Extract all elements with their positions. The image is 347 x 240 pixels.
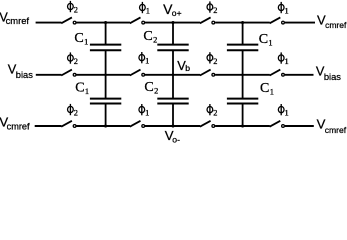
wire row A seg2 (76, 22, 130, 24)
junction node Vo+ (171, 21, 174, 24)
svg-text:cmref: cmref (325, 20, 347, 30)
wire row B seg4 (215, 74, 270, 76)
clock label phi2 (top sw1) (68, 1, 78, 15)
net label V_b (177, 58, 190, 73)
wire row A seg1 (36, 22, 62, 24)
junction node Vo- (171, 124, 174, 127)
svg-text:bias: bias (16, 70, 33, 80)
svg-text:o+: o+ (172, 8, 182, 18)
svg-text:2: 2 (74, 57, 78, 66)
svg-text:cmref: cmref (7, 121, 30, 131)
junction node top of C1 right (241, 21, 244, 24)
label C1 (top right cap) (259, 32, 273, 48)
clock label phi1 (top sw2) (140, 2, 150, 16)
switch phi1 S8 (mid row) (270, 70, 285, 77)
net label V_o- (165, 128, 180, 145)
svg-text:1: 1 (85, 87, 89, 96)
net label V_bias (right) (316, 63, 341, 81)
svg-text:bias: bias (324, 72, 341, 82)
junction mid row at right column (241, 74, 244, 77)
capacitor C1 bottom-right (227, 75, 258, 126)
label C1 (top left cap) (74, 31, 88, 47)
clock label phi1 (bot sw2) (139, 104, 149, 118)
svg-text:1: 1 (145, 109, 149, 118)
label C2 (top middle cap) (143, 29, 157, 45)
switch phi1 S10 (bottom row) (130, 121, 145, 128)
wire row A seg5 (285, 22, 315, 24)
svg-text:1: 1 (285, 7, 289, 16)
wire row B seg5 (285, 74, 314, 76)
svg-text:C: C (144, 80, 153, 95)
capacitor C2 top-middle (157, 23, 188, 75)
svg-text:C: C (74, 31, 83, 46)
label C1 (bottom left cap) (75, 81, 89, 97)
wire row C seg2 (76, 125, 130, 127)
clock label phi1 (mid sw2) (139, 52, 149, 66)
svg-text:1: 1 (285, 57, 289, 66)
clock label phi2 (bot sw3) (207, 104, 217, 118)
wire row C seg3 (145, 125, 200, 127)
svg-text:C: C (260, 81, 269, 96)
switch phi1 S6 (mid row) (130, 70, 145, 77)
clock label phi1 (mid sw4) (278, 52, 288, 66)
wire row C seg5 (285, 125, 314, 127)
wire row A seg3 (145, 22, 200, 24)
junction node bottom of C1 left (104, 124, 107, 127)
net label V_cmref (bottom left) (0, 114, 30, 131)
switch phi2 S3 (top row) (200, 17, 215, 24)
wire row C seg4 (215, 125, 270, 127)
switch phi1 S4 (top row) (270, 17, 285, 24)
svg-text:C: C (143, 29, 152, 44)
clock label phi2 (bot sw1) (68, 104, 78, 118)
svg-text:b: b (185, 63, 190, 73)
svg-text:2: 2 (74, 6, 78, 15)
switch phi2 S5 (mid row) (61, 70, 76, 77)
svg-text:1: 1 (268, 39, 272, 48)
clock label phi2 (mid sw1) (68, 52, 78, 66)
clock label phi1 (top sw4) (278, 2, 288, 16)
net label V_bias (left) (8, 62, 34, 80)
clock label phi1 (bot sw4) (278, 104, 288, 118)
clock label phi2 (mid sw3) (207, 52, 217, 66)
svg-text:2: 2 (213, 109, 217, 118)
switch phi2 S7 (mid row) (200, 70, 215, 77)
svg-text:1: 1 (270, 88, 274, 97)
svg-text:2: 2 (213, 57, 217, 66)
wire row B seg3 (145, 74, 200, 76)
wire row B seg2 (76, 74, 130, 76)
switch phi2 S1 (top row) (61, 17, 76, 24)
svg-text:C: C (259, 32, 268, 47)
svg-text:2: 2 (153, 35, 157, 44)
net label V_cmref (top left) (0, 10, 29, 25)
svg-text:1: 1 (146, 7, 150, 16)
switch phi1 S2 (top row) (130, 17, 145, 24)
svg-text:1: 1 (84, 38, 88, 47)
label C1 (bottom right cap) (260, 81, 274, 97)
svg-text:cmref: cmref (6, 15, 30, 26)
switch phi2 S9 (bottom row) (61, 121, 76, 128)
junction node Vb (172, 74, 175, 77)
svg-text:2: 2 (213, 6, 217, 15)
svg-text:1: 1 (285, 109, 289, 118)
svg-text:cmref: cmref (325, 125, 347, 135)
capacitor C2 bottom-middle (157, 75, 188, 126)
svg-text:C: C (75, 81, 84, 96)
wire row B seg1 (36, 74, 62, 76)
switch phi2 S11 (bottom row) (200, 121, 215, 128)
junction node top of C1 left (104, 21, 107, 24)
capacitor C1 top-left (90, 23, 121, 75)
capacitor C1 bottom-left (90, 75, 121, 126)
net label V_cmref (top right) (317, 12, 347, 30)
wire row C seg1 (35, 125, 62, 127)
junction mid row at left column (104, 74, 107, 77)
wire row A seg4 (215, 22, 270, 24)
svg-text:2: 2 (74, 109, 78, 118)
net label V_cmref (bottom right) (317, 116, 347, 134)
clock label phi2 (top sw3) (207, 1, 217, 15)
svg-text:2: 2 (154, 87, 158, 96)
net label V_o+ (163, 1, 182, 18)
svg-text:o-: o- (172, 135, 180, 145)
svg-text:1: 1 (145, 57, 149, 66)
capacitor C1 top-right (227, 23, 258, 75)
switch phi1 S12 (bottom row) (270, 121, 285, 128)
junction node bottom of C1 right (241, 124, 244, 127)
label C2 (bottom middle cap) (144, 80, 158, 96)
